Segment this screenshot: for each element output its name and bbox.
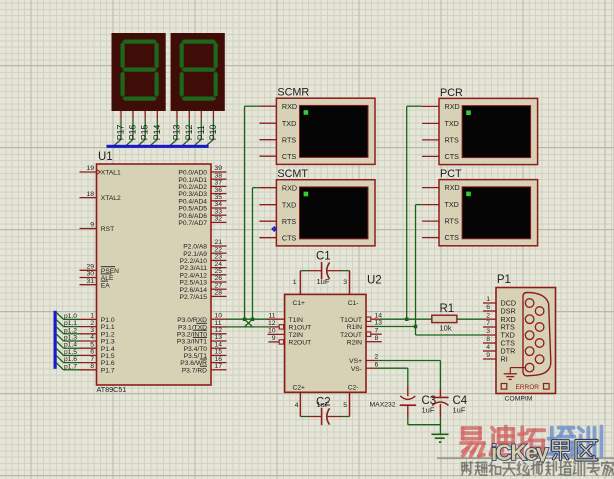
- svg-text:EA: EA: [101, 282, 110, 289]
- U1 pin 9 (RST): [80, 222, 115, 233]
- svg-text:21: 21: [215, 239, 223, 246]
- svg-text:RXD: RXD: [282, 183, 297, 192]
- U2 pin 14 (T1OUT): [340, 312, 382, 323]
- svg-text:P0.0/AD0: P0.0/AD0: [178, 170, 207, 177]
- svg-text:P1.7: P1.7: [101, 367, 115, 374]
- wire SCMR RXD to crossing: [245, 106, 260, 319]
- U1 pin 18 (XTAL2): [80, 191, 122, 202]
- watermark char small 10: [602, 462, 614, 476]
- watermark char small 5: [531, 462, 543, 475]
- svg-text:RXD: RXD: [445, 183, 460, 192]
- svg-text:3: 3: [90, 327, 94, 334]
- svg-text:CTS: CTS: [445, 152, 460, 161]
- cursor artifact (blue): [272, 227, 277, 232]
- wire crossover X: [245, 319, 253, 327]
- svg-text:RTS: RTS: [445, 136, 459, 145]
- SCMT pin RXD: [259, 183, 297, 192]
- svg-text:29: 29: [86, 264, 94, 271]
- P1 DB9 pin circles: [525, 299, 544, 372]
- svg-text:R1IN: R1IN: [347, 324, 362, 331]
- svg-text:38: 38: [215, 172, 223, 179]
- net p1.4 wire + bus entry: [57, 341, 80, 348]
- U1 pin 15 (P3.5/T1): [184, 349, 227, 360]
- bus entry P17: [114, 139, 121, 145]
- U1 pin 17 (P3.7/RD): [182, 363, 227, 374]
- bus entry P12: [182, 139, 189, 145]
- wire C3 bottom to ground net: [408, 418, 441, 425]
- bus entry P11: [194, 139, 201, 145]
- U1 pin 6 (P1.5): [80, 349, 115, 360]
- svg-text:U2: U2: [367, 275, 382, 287]
- svg-text:p1.2: p1.2: [64, 327, 77, 334]
- SCMR pin RXD: [259, 102, 297, 111]
- svg-text:P3.0/RXD: P3.0/RXD: [177, 317, 207, 324]
- U1 pin 38 (P0.1/AD1): [178, 172, 226, 183]
- net p1.1 wire + bus entry: [57, 320, 80, 327]
- U2 pin 11 (T1IN): [268, 312, 304, 323]
- svg-text:4: 4: [486, 344, 490, 351]
- svg-text:33: 33: [215, 208, 223, 215]
- wire U1 P3.1/TXD to U2 R1OUT: [227, 326, 269, 328]
- bus entry P16: [126, 139, 133, 145]
- svg-text:1uF: 1uF: [453, 406, 466, 415]
- svg-text:CTS: CTS: [282, 152, 297, 161]
- svg-text:RST: RST: [101, 226, 114, 233]
- U1 pin 35 (P0.4/AD4): [178, 194, 226, 205]
- svg-text:2: 2: [375, 354, 379, 361]
- U1 pin 1 (P1.0): [80, 313, 115, 324]
- svg-text:10: 10: [268, 328, 276, 335]
- svg-text:P1.5: P1.5: [101, 353, 115, 360]
- U2 pin 8 (R2IN): [347, 335, 382, 346]
- P1 DB9 connector outline: [523, 293, 551, 376]
- svg-text:P1.0: P1.0: [101, 317, 115, 324]
- U2 pin 13 (R1IN): [347, 320, 383, 331]
- svg-text:T1IN: T1IN: [289, 317, 304, 324]
- U1 pin 13 (P3.3/INT1): [177, 334, 227, 345]
- U1 pin 24 (P2.3/A11): [180, 261, 227, 272]
- MCU U1 AT89C51 body: [97, 151, 212, 394]
- svg-text:P14: P14: [152, 124, 162, 140]
- svg-text:p1.3: p1.3: [64, 335, 77, 342]
- svg-text:22: 22: [215, 246, 223, 253]
- wire U2 VS+ to C4/ground: [377, 361, 440, 389]
- svg-text:P3.7/RD: P3.7/RD: [182, 367, 207, 374]
- svg-text:P1.4: P1.4: [101, 346, 115, 353]
- svg-text:PCT: PCT: [440, 168, 462, 180]
- svg-text:24: 24: [215, 261, 223, 268]
- svg-text:RTS: RTS: [282, 217, 296, 226]
- svg-text:TXD: TXD: [445, 119, 459, 128]
- U1 pin 32 (P0.7/AD7): [178, 216, 226, 227]
- svg-text:P1.6: P1.6: [101, 360, 115, 367]
- svg-text:5: 5: [90, 341, 94, 348]
- svg-text:C1: C1: [316, 251, 331, 263]
- wire U1 P3.0/RXD to U2 T1IN: [227, 318, 269, 320]
- svg-text:p1.0: p1.0: [64, 313, 77, 320]
- watermark char small 6: [546, 462, 556, 476]
- svg-text:T2OUT: T2OUT: [340, 332, 362, 339]
- svg-text:CTS: CTS: [282, 233, 297, 242]
- C2 pin leads: [300, 392, 349, 416]
- svg-text:R2IN: R2IN: [347, 339, 362, 346]
- display pin wire P13: [170, 111, 182, 146]
- watermark: [437, 427, 614, 476]
- U1 pin 11 (P3.1/TXD): [178, 320, 227, 331]
- svg-text:P16: P16: [128, 124, 138, 140]
- display pin wire P11: [194, 111, 206, 146]
- svg-text:1: 1: [293, 279, 297, 286]
- C1 pin leads: [300, 271, 349, 295]
- bus entry P15: [138, 139, 145, 145]
- bus entry P10: [206, 139, 213, 145]
- U1 pin 3 (P1.2): [80, 327, 115, 338]
- svg-text:18: 18: [86, 191, 94, 198]
- svg-text:TXD: TXD: [445, 200, 459, 209]
- svg-text:39: 39: [215, 165, 223, 172]
- svg-text:3: 3: [343, 279, 347, 286]
- bus entry P13: [170, 139, 177, 145]
- svg-text:P0.6/AD6: P0.6/AD6: [178, 213, 207, 220]
- svg-text:5: 5: [343, 402, 347, 409]
- wire U2 VS- to C3: [377, 368, 408, 386]
- svg-text:P2.0/A8: P2.0/A8: [183, 244, 207, 251]
- virtual terminal SCMT: [276, 168, 375, 246]
- net p1.6 wire + bus entry: [57, 356, 80, 363]
- SCMR pin CTS: [259, 152, 296, 161]
- svg-text:16: 16: [215, 356, 223, 363]
- svg-text:CTS: CTS: [445, 233, 460, 242]
- PCR pin RTS: [422, 136, 459, 145]
- U1 pin 37 (P0.2/AD2): [178, 180, 226, 191]
- U1 pin 29 (PSEN): [80, 264, 120, 275]
- svg-text:30: 30: [86, 271, 94, 278]
- U1 pin 4 (P1.3): [80, 334, 115, 345]
- svg-text:P0.3/AD3: P0.3/AD3: [178, 191, 207, 198]
- SCMT pin RTS: [259, 217, 296, 226]
- svg-text:37: 37: [215, 180, 223, 187]
- svg-text:1: 1: [90, 313, 94, 320]
- svg-text:XTAL2: XTAL2: [101, 195, 121, 202]
- virtual terminal SCMR: [276, 87, 375, 165]
- svg-text:11: 11: [268, 312, 275, 319]
- svg-text:2: 2: [486, 312, 490, 319]
- watermark char big 2: [519, 427, 544, 455]
- svg-text:RXD: RXD: [445, 102, 460, 111]
- U2 pin 10 (T2IN): [268, 328, 304, 339]
- SCMR pin TXD: [259, 119, 296, 128]
- watermark char big 0: [461, 428, 484, 456]
- net p1.7 wire + bus entry: [57, 363, 80, 370]
- P1 internal ground symbol: [504, 368, 526, 380]
- bus entry P14: [150, 139, 157, 145]
- svg-text:14: 14: [375, 312, 383, 319]
- svg-text:RXD: RXD: [282, 102, 297, 111]
- U2 pin 6 (VS-): [351, 361, 379, 372]
- svg-text:P2.4/A12: P2.4/A12: [179, 272, 207, 279]
- net p1.2 wire + bus entry: [57, 327, 80, 334]
- svg-text:P0.7/AD7: P0.7/AD7: [178, 220, 207, 227]
- wire U2 R1IN to P1 TXD: [374, 327, 483, 336]
- svg-text:35: 35: [215, 194, 223, 201]
- svg-text:P12: P12: [184, 124, 194, 140]
- wire C4 bottom to ground: [439, 417, 441, 434]
- svg-text:7: 7: [375, 327, 379, 334]
- svg-text:1: 1: [486, 296, 490, 303]
- watermark char 区: [576, 441, 597, 460]
- svg-text:12: 12: [268, 320, 276, 327]
- svg-text:28: 28: [215, 290, 223, 297]
- watermark char small 1: [475, 462, 487, 475]
- svg-text:P2.7/A15: P2.7/A15: [179, 294, 207, 301]
- svg-text:10k: 10k: [440, 323, 452, 332]
- svg-text:VS-: VS-: [351, 366, 362, 373]
- svg-text:p1.7: p1.7: [64, 363, 77, 370]
- svg-text:p1.1: p1.1: [64, 320, 77, 327]
- svg-text:25: 25: [215, 268, 223, 275]
- cursor block: [466, 192, 471, 197]
- SCMR pin RTS: [259, 135, 296, 144]
- svg-text:26: 26: [215, 275, 223, 282]
- svg-text:MAX232: MAX232: [370, 402, 396, 409]
- P1 pin 2 (RXD): [483, 312, 516, 323]
- svg-text:R1OUT: R1OUT: [289, 325, 312, 332]
- PCT pin CTS: [422, 233, 459, 242]
- svg-text:P15: P15: [140, 124, 150, 140]
- svg-text:9: 9: [272, 335, 276, 342]
- wire PCR RXD down to T1OUT net: [407, 106, 422, 319]
- P1 ERROR indicator: [501, 384, 549, 391]
- net p1.0 wire + bus entry: [57, 313, 80, 320]
- svg-text:P2.3/A11: P2.3/A11: [180, 265, 207, 272]
- U1 pin 33 (P0.6/AD6): [178, 208, 226, 219]
- svg-text:1uF: 1uF: [317, 277, 330, 286]
- U1 pin 26 (P2.5/A13): [179, 275, 226, 286]
- svg-text:14: 14: [215, 341, 223, 348]
- U1 pin 16 (P3.6/WR): [180, 356, 226, 367]
- svg-text:P17: P17: [116, 124, 126, 140]
- svg-text:9: 9: [486, 352, 490, 359]
- svg-text:1uF: 1uF: [317, 400, 330, 409]
- svg-text:C1+: C1+: [293, 300, 306, 307]
- svg-text:P1: P1: [497, 274, 511, 286]
- svg-text:8: 8: [486, 336, 490, 343]
- capacitor C3: [400, 386, 437, 418]
- U1 pin 30 (ALE): [80, 271, 114, 282]
- resistor R1: [432, 303, 457, 323]
- svg-text:T1OUT: T1OUT: [340, 317, 362, 324]
- svg-text:ERROR: ERROR: [516, 384, 540, 391]
- cursor block: [466, 110, 471, 115]
- svg-text:6: 6: [90, 349, 94, 356]
- svg-text:P2.5/A13: P2.5/A13: [179, 280, 207, 287]
- svg-text:C2-: C2-: [348, 385, 359, 392]
- wire SCMT RXD to crossing: [253, 188, 260, 320]
- watermark char small 3: [503, 463, 515, 476]
- svg-text:T2IN: T2IN: [289, 332, 304, 339]
- svg-text:7: 7: [486, 320, 490, 327]
- svg-text:RTS: RTS: [282, 135, 296, 144]
- svg-text:7: 7: [90, 356, 94, 363]
- svg-text:R2OUT: R2OUT: [289, 340, 312, 347]
- svg-text:C2+: C2+: [293, 385, 306, 392]
- svg-text:27: 27: [215, 282, 223, 289]
- svg-text:XTAL1: XTAL1: [101, 170, 121, 177]
- junction dot: [251, 318, 255, 322]
- display pin wire P17: [114, 111, 126, 146]
- capacitor C2: [300, 392, 349, 425]
- capacitor C1: [300, 251, 349, 295]
- svg-text:P2.6/A14: P2.6/A14: [179, 287, 207, 294]
- svg-text:P1.3: P1.3: [101, 339, 115, 346]
- U1 pin 23 (P2.2/A10): [179, 254, 226, 265]
- U1 pin 36 (P0.3/AD3): [178, 187, 226, 198]
- PCT pin RXD: [422, 183, 460, 192]
- virtual terminal PCR: [439, 87, 538, 165]
- wire PCT TXD down to R1IN net: [416, 205, 422, 327]
- U2 pin 7 (T2OUT): [340, 327, 382, 338]
- svg-text:P3.3/INT1: P3.3/INT1: [177, 339, 207, 346]
- svg-text:36: 36: [215, 187, 223, 194]
- junction dot: [414, 325, 418, 329]
- svg-text:2: 2: [90, 320, 94, 327]
- 7-segment display DS1: [112, 33, 166, 111]
- U2 pin 9 (R2OUT): [268, 335, 311, 346]
- PCR pin RXD: [422, 102, 460, 111]
- U1 pin 2 (P1.1): [80, 320, 115, 331]
- svg-text:13: 13: [215, 334, 223, 341]
- U1 pin 31 (EA): [80, 278, 111, 289]
- svg-text:3: 3: [486, 328, 490, 335]
- P1 pin 8 (CTS): [483, 336, 515, 347]
- display pin wire P16: [126, 111, 138, 146]
- SCMT pin TXD: [259, 200, 296, 209]
- watermark char small 4: [517, 462, 529, 475]
- junction dot: [405, 318, 409, 322]
- svg-text:9: 9: [90, 222, 94, 229]
- display pin wire P10: [206, 111, 218, 146]
- U1 pin 27 (P2.6/A14): [179, 282, 226, 293]
- bus (display to P1 port): [107, 145, 209, 148]
- svg-text:SCMT: SCMT: [277, 168, 308, 180]
- svg-text:P1.1: P1.1: [101, 324, 115, 331]
- U1 pin 12 (P3.2/INT0): [177, 327, 227, 338]
- C2 pin numbers: [295, 402, 348, 409]
- U1 pin 5 (P1.4): [80, 341, 115, 352]
- svg-text:PCR: PCR: [440, 87, 463, 99]
- wire R1 to P1 RXD: [457, 318, 483, 320]
- U1 pin 25 (P2.4/A12): [179, 268, 226, 279]
- svg-text:C1-: C1-: [348, 300, 359, 307]
- svg-text:1uF: 1uF: [422, 406, 435, 415]
- capacitor C4: [432, 389, 468, 418]
- svg-text:13: 13: [375, 320, 383, 327]
- U1 pin 7 (P1.6): [80, 356, 115, 367]
- svg-text:6: 6: [486, 304, 490, 311]
- IC U2 MAX232 body: [285, 275, 396, 409]
- svg-text:19: 19: [86, 165, 94, 172]
- virtual terminal PCT: [439, 168, 538, 246]
- svg-text:R1: R1: [440, 303, 455, 315]
- C1 pin numbers: [293, 279, 348, 286]
- watermark char small 8: [573, 462, 584, 476]
- U1 pin 19 (XTAL1): [80, 165, 122, 176]
- svg-text:10: 10: [215, 312, 223, 319]
- svg-text:P10: P10: [208, 124, 218, 140]
- svg-text:P13: P13: [172, 124, 182, 140]
- svg-text:P2.2/A10: P2.2/A10: [179, 258, 207, 265]
- svg-text:P0.2/AD2: P0.2/AD2: [178, 184, 207, 191]
- svg-text:p1.6: p1.6: [64, 356, 77, 363]
- P1 pin 7 (RTS): [483, 320, 515, 331]
- svg-text:P2.1/A9: P2.1/A9: [183, 251, 207, 258]
- watermark char big 4: [578, 427, 601, 457]
- ground symbol: [431, 434, 448, 442]
- svg-text:RTS: RTS: [445, 217, 459, 226]
- display pin wire P15: [138, 111, 150, 146]
- svg-text:TXD: TXD: [282, 200, 296, 209]
- svg-text:p1.4: p1.4: [64, 342, 77, 349]
- U2 pin 2 (VS+): [349, 354, 378, 365]
- svg-text:12: 12: [215, 327, 223, 334]
- junction dot: [243, 318, 247, 322]
- P1 pin 9 (RI): [483, 352, 508, 363]
- cursor block: [304, 192, 309, 197]
- svg-text:p1.5: p1.5: [64, 349, 77, 356]
- svg-text:COMPIM: COMPIM: [505, 396, 533, 403]
- svg-text:34: 34: [215, 201, 223, 208]
- P1 pin 1 (DCD): [483, 296, 516, 307]
- watermark char 社: [553, 441, 568, 460]
- U1 pin 22 (P2.1/A9): [183, 246, 226, 257]
- U2 pin 12 (R1OUT): [268, 320, 311, 331]
- U1 pin 28 (P2.7/A15): [179, 290, 226, 301]
- U1 pin 34 (P0.5/AD5): [178, 201, 226, 212]
- U1 pin 14 (P3.4/T0): [184, 341, 227, 352]
- vertical bus (U1 port P1): [54, 311, 57, 369]
- net p1.5 wire + bus entry: [57, 349, 80, 356]
- svg-text:P0.1/AD1: P0.1/AD1: [178, 177, 207, 184]
- PCR pin TXD: [422, 119, 459, 128]
- PCR pin CTS: [422, 152, 459, 161]
- watermark char big 1: [491, 427, 516, 455]
- watermark char big 3: [548, 428, 574, 456]
- 7-segment display DS2: [171, 33, 225, 111]
- watermark char small 2: [489, 462, 501, 475]
- svg-text:P0.5/AD5: P0.5/AD5: [178, 206, 207, 213]
- svg-text:SCMR: SCMR: [277, 87, 309, 99]
- svg-text:4: 4: [90, 334, 94, 341]
- watermark char small 9: [587, 462, 599, 475]
- display pin wire P12: [182, 111, 194, 146]
- svg-text:17: 17: [215, 363, 223, 370]
- svg-text:31: 31: [86, 278, 94, 285]
- svg-text:RI: RI: [501, 355, 508, 364]
- svg-text:4: 4: [295, 402, 299, 409]
- U1 pin 10 (P3.0/RXD): [177, 312, 226, 323]
- svg-text:8: 8: [90, 363, 94, 370]
- wire U2 T1OUT to R1: [381, 318, 432, 320]
- U1 pin 8 (P1.7): [80, 363, 115, 374]
- watermark char small 7: [559, 462, 571, 475]
- PCT pin TXD: [422, 200, 459, 209]
- net p1.3 wire + bus entry: [57, 334, 80, 341]
- U1 XTAL1 clock marker: [97, 170, 101, 175]
- svg-text:P3.4/T0: P3.4/T0: [184, 346, 208, 353]
- svg-text:P0.4/AD4: P0.4/AD4: [178, 198, 207, 205]
- P1 pin 4 (DTR): [483, 344, 515, 355]
- svg-text:VS+: VS+: [349, 358, 362, 365]
